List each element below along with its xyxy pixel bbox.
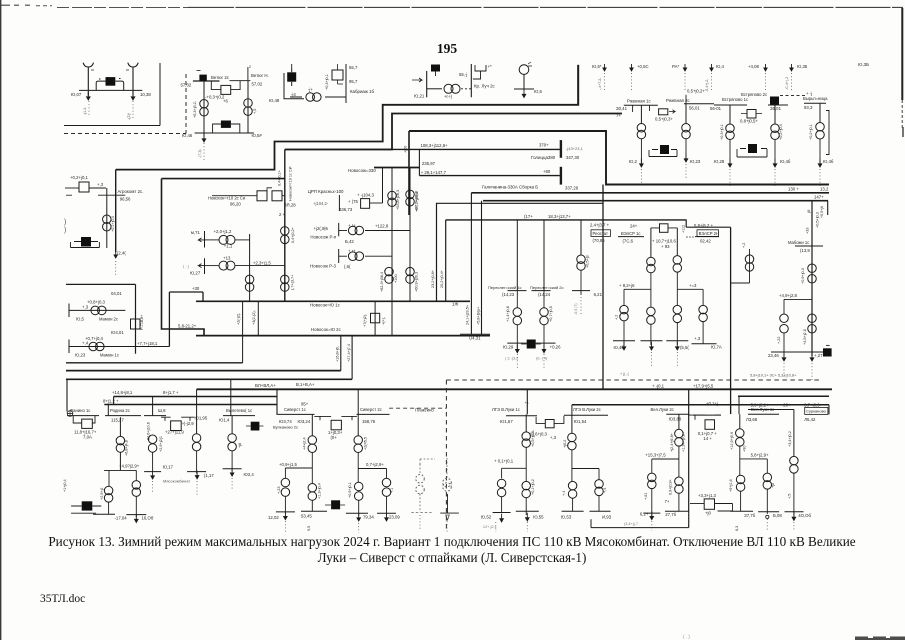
V2 column xyxy=(793,410,795,457)
svg-text:Ю,29: Ю,29 xyxy=(503,345,514,350)
dashed link Сиверст-Плаксино xyxy=(389,407,446,409)
ВЛ2 M lower lead xyxy=(678,493,680,511)
svg-text:Ю,48: Ю,48 xyxy=(269,98,280,103)
reactor square ВЛуки2 xyxy=(705,420,715,430)
tick above Мабожи square xyxy=(826,344,830,346)
box dotted trail xyxy=(688,513,690,524)
breaker 10,48 bracket xyxy=(284,68,304,99)
CRP bus tick xyxy=(338,195,340,211)
load arrow under F1 xyxy=(87,92,91,100)
ЛГЭ 2с riser to line D xyxy=(571,405,573,415)
svg-text:Кабриаж 1б: Кабриаж 1б xyxy=(350,89,374,94)
branch 8,2+j6 xyxy=(624,288,651,290)
riser x578 top xyxy=(577,65,579,105)
svg-text:+,4: +,4 xyxy=(562,491,566,496)
tap arrow A2 xyxy=(630,64,633,71)
Ржевная T2 dotted xyxy=(685,164,687,180)
svg-text:Ю,46: Ю,46 xyxy=(182,133,193,138)
svg-text:ЛГЭ В.Луки 2с: ЛГЭ В.Луки 2с xyxy=(573,407,601,412)
ghost ground bar left dashed xyxy=(411,512,431,514)
svg-text:Ю,23: Ю,23 xyxy=(75,353,86,358)
bus Вел.Луки 1с xyxy=(748,413,779,415)
Встряпово TA lower xyxy=(729,140,731,168)
Мясо lower lead xyxy=(152,452,154,471)
svg-text:+2,0+j1,2: +2,0+j1,2 xyxy=(214,229,233,234)
svg-text:+ j( ,(: + j( ,( xyxy=(620,372,629,376)
bus tick Кр.Луч xyxy=(470,64,472,97)
svg-text:+9+j1,6: +9+j1,6 xyxy=(729,479,733,492)
row Р-3 lead right xyxy=(365,255,392,257)
tap arrow A3 xyxy=(683,64,686,71)
load arrow Переслег 2 xyxy=(542,345,546,353)
transformer Родина L xyxy=(104,486,113,502)
Ржевная T2 lower xyxy=(685,139,687,162)
reactor square Мясо xyxy=(171,421,182,431)
ghost ground bar solid xyxy=(440,512,459,514)
circled plus left xyxy=(67,411,73,417)
svg-text:+j104,2-: +j104,2- xyxy=(313,201,329,206)
Встряпово B dotted xyxy=(774,169,776,186)
ground bar Родина R xyxy=(126,514,146,516)
S2M dotted trail xyxy=(358,523,360,533)
tap arrow A5 dotted trail xyxy=(765,73,767,90)
ghost arrow xyxy=(446,515,450,520)
tap arrow A5 xyxy=(764,64,767,71)
svg-text:+7(+j2),: +7(+j2), xyxy=(363,314,367,327)
Встряпово TC lower xyxy=(819,139,821,167)
svg-text:ЗЯ,28: ЗЯ,28 xyxy=(284,203,296,208)
svg-text:+3,3+j1,3: +3,3+j1,3 xyxy=(698,493,717,498)
tap arrow A2 dotted trail xyxy=(631,73,633,90)
line D y404 left xyxy=(104,404,277,406)
svg-text:+ (75: + (75 xyxy=(348,199,359,204)
svg-text:+1,1: +1,1 xyxy=(224,243,233,248)
svg-text:+33: +33 xyxy=(806,228,810,234)
reactor square ЛГЭ xyxy=(545,420,554,428)
bus Переслегинский 2с xyxy=(532,290,551,292)
Вылетово bus column xyxy=(231,416,233,434)
svg-text:0,9+j0,9+: 0,9+j0,9+ xyxy=(669,478,673,495)
Агрокомт bus tick line xyxy=(98,194,125,196)
svg-text:+12,9+j9,9: +12,9+j9,9 xyxy=(730,432,734,450)
L2 junction bar xyxy=(572,468,599,470)
svg-text:+,27: +,27 xyxy=(814,353,823,358)
bus tick 581 xyxy=(572,290,590,292)
bracket right of TC xyxy=(826,111,829,155)
tap arrow A4 dotted trail xyxy=(711,73,713,90)
bus bar Голицца 330 upper xyxy=(560,140,562,158)
Мабожи L dotted trail xyxy=(783,363,785,378)
svg-text:Переслег=ский 1с: Переслег=ский 1с xyxy=(488,285,521,290)
transformer x249 xyxy=(245,275,254,291)
ВЛ2 L lower lead xyxy=(651,489,653,516)
svg-text:Галичанина-330А Сборка Б: Галичанина-330А Сборка Б xyxy=(482,185,538,190)
svg-text:02,42: 02,42 xyxy=(700,239,711,244)
svg-text:Вел.Луки 2с: Вел.Луки 2с xyxy=(651,407,674,412)
ЛГЭ L1 column xyxy=(525,414,527,432)
svg-text:+1,3+j0,4: +1,3+j0,4 xyxy=(318,483,322,499)
svg-text:8+j1,2 +: 8+j1,2 + xyxy=(103,398,119,403)
svg-text:Ю,2: Ю,2 xyxy=(629,159,638,164)
arrow into bus 10,21 xyxy=(412,78,422,82)
V1R load dot xyxy=(766,515,769,518)
ВЛуки1 riser from line C xyxy=(738,396,740,414)
svg-text:Мабожи 1с: Мабожи 1с xyxy=(788,240,809,245)
svg-text:-17,04: -17,04 xyxy=(115,516,128,521)
svg-text:1Ж: 1Ж xyxy=(452,302,458,307)
V1 right branch xyxy=(766,459,768,473)
Переслег 1 dotted trail xyxy=(516,354,518,368)
transformer Р-3 xyxy=(348,252,363,261)
svg-text:+0,2+j0,4: +0,2+j0,4 xyxy=(779,124,783,140)
svg-text:Сиверст 1с: Сиверст 1с xyxy=(284,407,306,412)
svg-text:Мамон 1с: Мамон 1с xyxy=(100,353,119,358)
ВЭлСР2Н corner vertical xyxy=(730,227,732,414)
staircase b1 horizontal xyxy=(169,291,203,293)
svg-text:З0,41: З0,41 xyxy=(616,106,628,111)
svg-text:Ю,ЗБ: Ю,ЗБ xyxy=(858,62,869,67)
svg-text:-+0,3+j0,2: -+0,3+j0,2 xyxy=(205,95,225,100)
svg-text:7+: 7+ xyxy=(616,113,621,118)
lead to square 2с xyxy=(212,195,257,197)
svg-text:Ю,55: Ю,55 xyxy=(533,515,544,520)
Встряпово C dotted xyxy=(819,169,821,186)
Встряпово TA column xyxy=(729,105,731,124)
ground bar Мясо xyxy=(144,471,161,473)
V1 column xyxy=(739,414,741,429)
svg-text:Ю1,54: Ю1,54 xyxy=(574,419,587,424)
transformer Нсж T2a xyxy=(406,190,415,206)
svg-text:+ -j104,3: + -j104,3 xyxy=(357,193,374,198)
Ржевная T1 column xyxy=(640,105,642,123)
tap arrow A1 xyxy=(603,64,606,71)
transformer feeder x392 xyxy=(391,168,393,336)
S1 junction bar xyxy=(285,467,312,469)
transformer 677b xyxy=(673,305,682,322)
svg-text:-,4+7,2-: -,4+7,2- xyxy=(598,77,602,90)
svg-text:14 +: 14 + xyxy=(703,436,712,441)
transformer Вылетово xyxy=(192,434,201,451)
transformer S2 xyxy=(354,436,363,453)
330kV box left vertical xyxy=(408,131,410,215)
load arrow Мабожи L xyxy=(782,353,786,361)
svg-text:+0,7+j0,5: +0,7+j0,5 xyxy=(549,306,553,322)
svg-text:+6,3+j3,2-: +6,3+j3,2- xyxy=(193,100,197,118)
svg-text:2,4+j3,7 +: 2,4+j3,7 + xyxy=(590,223,610,228)
svg-text:95,7: 95,7 xyxy=(349,79,358,84)
tick above 10,48 xyxy=(291,64,293,68)
transformer 703 xyxy=(699,305,708,321)
row Р-3 tick xyxy=(338,249,340,263)
generator ground arrow xyxy=(522,89,526,97)
svg-text:+2(-j2),: +2(-j2), xyxy=(237,313,241,325)
svg-text:Фанино 1с: Фанино 1с xyxy=(70,408,90,413)
load arrow ВЛ2 L xyxy=(650,511,654,519)
svg-text:Ю,4б: Ю,4б xyxy=(823,159,834,164)
staircase to bus2 xyxy=(162,179,205,336)
ВЛуки bus link xyxy=(748,409,794,411)
bus stub Голицца 2 line2 xyxy=(419,175,559,177)
load arrow 651 xyxy=(650,342,654,350)
svg-text:35ТЛ.doc: 35ТЛ.doc xyxy=(40,593,85,605)
V1R lower lead xyxy=(766,489,768,514)
column 651 lower xyxy=(650,324,652,345)
svg-text:10,38: 10,38 xyxy=(140,92,151,97)
load arrow L1M xyxy=(526,513,530,521)
Сурканово box xyxy=(805,407,828,414)
svg-text:Мясокомбинат: Мясокомбинат xyxy=(163,479,190,484)
svg-text:108,3+j112,8+: 108,3+j112,8+ xyxy=(421,143,449,148)
svg-text:Кр. Луч 2с: Кр. Луч 2с xyxy=(474,84,496,89)
svg-text:Ю,5*: Ю,5* xyxy=(592,64,602,69)
svg-text:+80: +80 xyxy=(543,169,551,174)
Встряпово TB column xyxy=(774,105,776,124)
Кабриаж reactor leads xyxy=(338,64,344,84)
load row 2 lead right xyxy=(236,265,285,267)
svg-text:Вырьп=ница: Вырьп=ница xyxy=(803,96,828,101)
inter-bus reactor square xyxy=(371,313,380,323)
svg-text:5,8+j5,2 +: 5,8+j5,2 + xyxy=(694,223,714,228)
svg-text:+0,5С: +0,5С xyxy=(637,64,649,69)
svg-text:347,30: 347,30 xyxy=(566,155,580,160)
transformer Мабожи M xyxy=(808,314,817,333)
transformer Переслег 1 xyxy=(513,308,522,325)
tap arrow A4 xyxy=(710,64,713,71)
svg-text:Новосок=Ю 1с: Новосок=Ю 1с xyxy=(310,303,341,308)
svg-text:Плаксино: Плаксино xyxy=(415,408,434,413)
Сиверст drop from main line xyxy=(276,389,278,414)
breaker square lead xyxy=(435,72,437,77)
transformer S1M xyxy=(308,484,317,501)
svg-text:2: 2 xyxy=(249,65,251,69)
dashed region boundary vertical xyxy=(185,74,187,134)
load arrow Мясо xyxy=(151,471,155,479)
svg-text:+,2: +,2 xyxy=(615,315,619,320)
svg-text:U4,31: U4,31 xyxy=(469,336,481,341)
Ржевная T2 column xyxy=(685,104,687,124)
top-left box bottom border xyxy=(64,125,160,127)
bus Сиверст 1с xyxy=(277,413,315,415)
svg-text:Новосож Р-п: Новосож Р-п xyxy=(310,235,337,240)
Кабриаж tr lead right xyxy=(325,96,346,98)
ЛГЭ drop from main line xyxy=(526,389,528,414)
ghost feeder G1 lower xyxy=(419,494,421,512)
svg-text:+ 93: + 93 xyxy=(661,244,670,249)
reactor square Новосокт10-1с xyxy=(272,191,282,201)
trunk left tail arrow xyxy=(114,251,117,258)
load arrow Ветюг xyxy=(202,134,206,142)
S2M lower lead xyxy=(358,500,360,515)
column 651 mid xyxy=(650,273,652,307)
svg-text:Родина 2с: Родина 2с xyxy=(110,408,130,413)
bus ЛГЭ 1с xyxy=(506,415,537,417)
svg-text:+,3: +,3 xyxy=(694,336,701,341)
svg-text:18,3+j13,7+: 18,3+j13,7+ xyxy=(548,214,571,219)
breaker black square Агрокомт xyxy=(81,237,91,247)
svg-text:115,27: 115,27 xyxy=(111,418,124,423)
svg-text:Новосок=т10 2с Си: Новосок=т10 2с Си xyxy=(208,195,246,200)
svg-text:2 +: 2 + xyxy=(279,212,286,217)
svg-text:5,7+j0,9+: 5,7+j0,9+ xyxy=(804,403,822,408)
svg-text:м,?1: м,?1 xyxy=(191,230,201,235)
breaker black square Мабожи xyxy=(823,348,832,356)
svg-text:Л3,68: Л3,68 xyxy=(746,417,758,422)
svg-text:+4,9+j2,8: +4,9+j2,8 xyxy=(779,293,798,298)
bus Встряпово 1с xyxy=(714,104,747,106)
square 1с hook leads xyxy=(267,188,285,196)
Кр.Луч tr dashed lead xyxy=(461,88,471,90)
svg-text:6,21: 6,21 xyxy=(594,292,603,297)
S2 split lead xyxy=(357,453,359,483)
svg-text:Р-718,8+: Р-718,8+ xyxy=(140,314,144,330)
tie B left drop xyxy=(66,379,68,411)
L2R lower lead xyxy=(598,496,600,512)
svg-text:(,7+(3,7+: (,7+(3,7+ xyxy=(291,274,295,290)
svg-text:+2,3+j1,5: +2,3+j1,5 xyxy=(253,260,272,265)
ghost transformer G1 xyxy=(416,475,425,494)
svg-text:235,97: 235,97 xyxy=(422,161,436,166)
svg-text:337,29: 337,29 xyxy=(565,186,579,191)
line D y404 right xyxy=(572,404,829,406)
box around Реостат label xyxy=(591,230,611,237)
load arrow Вылетово 2 xyxy=(230,468,234,476)
svg-text:+j0: +j0 xyxy=(705,511,711,516)
reactor square Ржевная xyxy=(659,109,668,115)
Ржевная bus stub a xyxy=(632,105,634,112)
drop x382 to CRP xyxy=(382,168,384,204)
svg-text:+г+): +г+) xyxy=(444,94,453,99)
column 624 lower xyxy=(623,321,625,345)
staircase horizontal y178 xyxy=(162,178,285,180)
line C y396 left xyxy=(114,396,277,398)
svg-text:Агрокомт 2с.: Агрокомт 2с. xyxy=(118,189,144,194)
svg-text:Ю1,67: Ю1,67 xyxy=(500,419,513,424)
transformer V2 xyxy=(790,456,799,473)
svg-text:Ю,27: Ю,27 xyxy=(190,271,201,276)
svg-text:+27+j11,9: +27+j11,9 xyxy=(165,430,184,435)
svg-text:Ю,23: Ю,23 xyxy=(690,159,701,164)
ghost feeder G1 xyxy=(419,464,421,475)
ground bar S1L xyxy=(276,511,295,513)
svg-text:+0,5+j3: +0,5+j3 xyxy=(586,255,590,268)
svg-text:+90: +90 xyxy=(743,446,747,452)
Переслег col2 mid xyxy=(543,291,545,308)
svg-text:4О,Об: 4О,Об xyxy=(798,513,811,518)
svg-text:Ю3,88: Ю3,88 xyxy=(669,417,682,422)
ground bar Вылетово 2 xyxy=(223,468,242,470)
breaker black square Ржевная xyxy=(660,145,669,154)
svg-text:+,4: +,4 xyxy=(82,341,89,346)
transformer Мабожи L xyxy=(780,314,789,333)
ground bar L2M xyxy=(562,510,584,512)
ghost dotted trail 2 xyxy=(419,515,421,530)
ground bar Мабожи L xyxy=(771,351,797,353)
riser x419 xyxy=(418,149,420,175)
ground bar V1R xyxy=(758,511,779,513)
svg-text:И,9З: И,9З xyxy=(602,515,612,520)
transformer V1R xyxy=(763,473,772,489)
svg-text:+4+j2,4: +4+j2,4 xyxy=(303,437,307,450)
breaker black square Встряпово xyxy=(770,97,779,106)
tie dotted link xyxy=(686,236,695,238)
load arrow Родина R xyxy=(135,514,139,522)
svg-text:6,2+: 6,2+ xyxy=(640,512,649,517)
ВЛ2 left branch xyxy=(651,459,653,473)
dotted trail Ветюг xyxy=(203,143,205,160)
transformer Новосокт10 xyxy=(281,227,290,244)
svg-text:79,34: 79,34 xyxy=(363,515,374,520)
dashed region boundary horizontal xyxy=(64,133,186,135)
svg-text:20+: 20+ xyxy=(783,403,791,408)
svg-text:+j0: +j0 xyxy=(771,483,775,488)
S1 left branch xyxy=(284,468,286,478)
L1L lower lead xyxy=(501,497,503,513)
bus Сиверст 2с xyxy=(357,413,390,415)
svg-text:Рисунок 13. Зимний режим макси: Рисунок 13. Зимний режим максимальных на… xyxy=(48,534,855,549)
fork circuit baseline xyxy=(79,89,142,91)
transformer Нсж T1a xyxy=(388,191,397,206)
row Р-п lead right xyxy=(365,230,410,232)
svg-text:+3,4+j0,2: +3,4+j0,2 xyxy=(788,431,792,447)
svg-text:Новосож Р-3: Новосож Р-3 xyxy=(310,264,337,269)
svg-text:55,-j: 55,-j xyxy=(459,72,467,77)
long vertical x603 xyxy=(602,185,604,390)
svg-text:+,5: +,5 xyxy=(253,109,257,114)
svg-text:+ 10,7+j10,6: + 10,7+j10,6 xyxy=(652,239,677,244)
top-left box right border xyxy=(159,63,161,126)
box link drop xyxy=(732,504,734,512)
line 147 right bend stub xyxy=(827,201,829,215)
bottom-right box bottom edge xyxy=(591,527,689,529)
V1M lower lead xyxy=(740,491,742,511)
bus 114,31 xyxy=(460,333,490,335)
bus Ржевная 1с xyxy=(624,104,658,106)
svg-text:+7,7+j18,1: +7,7+j18,1 xyxy=(137,341,158,346)
svg-text:Ветюг Н.: Ветюг Н. xyxy=(251,73,269,78)
breaker black square Сиверст LV xyxy=(331,500,340,509)
Сиверст S1 column xyxy=(311,414,313,435)
svg-text:( 2,-(3,2: ( 2,-(3,2 xyxy=(505,357,518,361)
bottom-right L vertical xyxy=(688,389,690,527)
fork symbol F1 xyxy=(83,63,93,96)
svg-text:+0,5+j0,3: +0,5+j0,3 xyxy=(816,212,820,228)
breaker black square K1 xyxy=(106,77,116,86)
svg-text:Ю4,01: Ю4,01 xyxy=(111,330,124,335)
Вылетово drop from line B xyxy=(230,379,232,415)
L1 split lead xyxy=(525,447,527,481)
ВЭлСР corner drop end xyxy=(730,406,732,414)
svg-text:Новосок=т10 1с СИ: Новосок=т10 1с СИ xyxy=(289,166,293,201)
Ржевная reactor arrow xyxy=(669,110,675,114)
Встряпово reactor leads xyxy=(741,113,762,115)
svg-text:5,8+j2,1+: 5,8+j2,1+ xyxy=(751,403,769,408)
svg-text:( : (: ( : ( xyxy=(183,264,190,269)
transformer ВЛ2 xyxy=(675,429,684,446)
svg-text:+53,8+j28,3: +53,8+j28,3 xyxy=(396,190,400,210)
svg-text:12+-j2,1: 12+-j2,1 xyxy=(483,525,497,529)
reactor square Ветюг xyxy=(221,85,231,94)
column 677 mid xyxy=(676,272,678,305)
svg-text:Ю,17: Ю,17 xyxy=(163,465,174,470)
svg-text:Б,08: Б,08 xyxy=(773,513,782,518)
svg-text:-j4: -j4 xyxy=(291,92,296,97)
ground bar S2R xyxy=(377,512,396,514)
transformer S2R xyxy=(382,478,391,496)
ground bar Мабожи M xyxy=(797,351,823,353)
Встряпово TC column xyxy=(819,103,821,122)
transformer Переслег 2 xyxy=(540,308,549,325)
Кр.Луч tr lead left xyxy=(427,88,442,90)
